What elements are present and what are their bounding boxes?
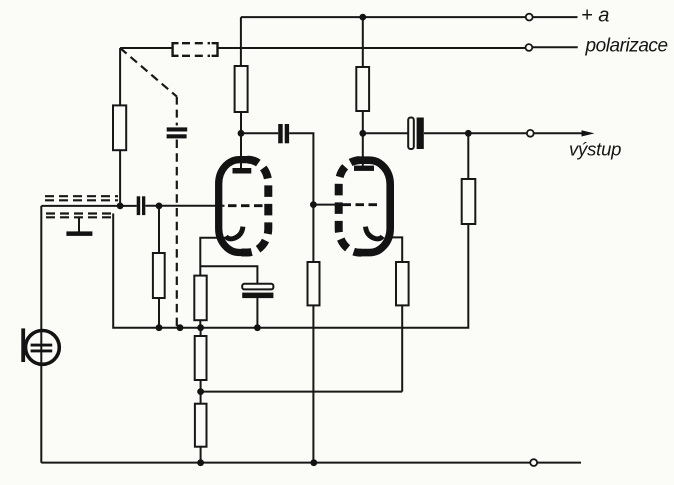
svg-text:polarizace: polarizace — [585, 36, 668, 57]
svg-text:+ a: + a — [581, 5, 609, 27]
svg-text:výstup: výstup — [569, 139, 621, 160]
